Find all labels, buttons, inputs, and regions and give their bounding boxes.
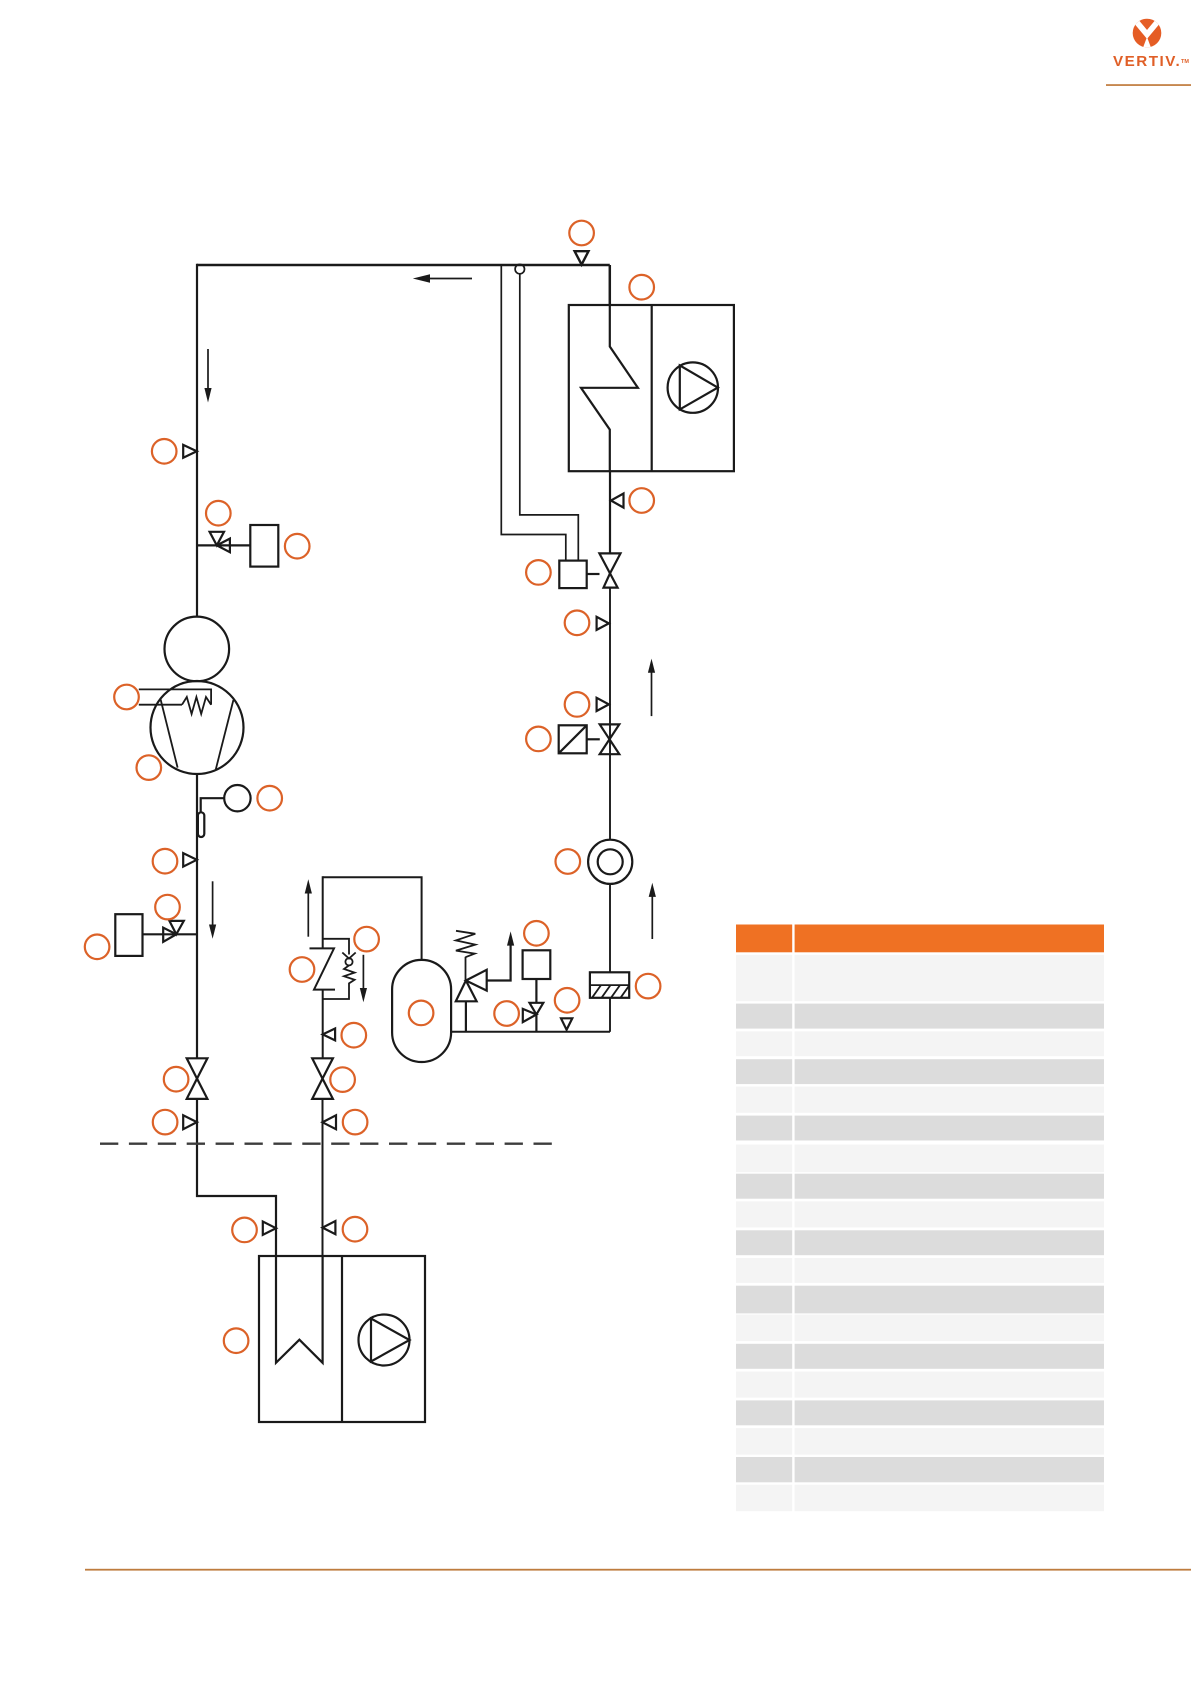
svg-text:TM: TM: [1181, 59, 1189, 65]
svg-text:VERTIV.: VERTIV.: [1113, 53, 1181, 70]
